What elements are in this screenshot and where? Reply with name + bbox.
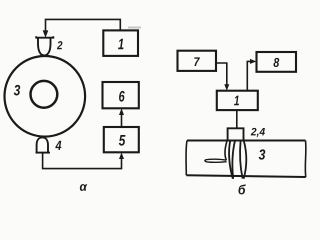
workpiece bottom surface — [186, 175, 305, 177]
arrow into block 1 — [224, 84, 229, 90]
workpiece top surface — [187, 140, 306, 142]
workpiece left edge — [185, 141, 188, 176]
rotor disc 3 (outer circle) — [5, 56, 86, 137]
arrow into block 8 — [250, 59, 256, 64]
label 3 (workpiece) — [259, 149, 266, 159]
rotor bore (inner circle) — [31, 81, 58, 108]
wire block1 to block8 — [247, 61, 253, 90]
wire block1 to probe 2,4 — [236, 110, 238, 128]
block 8 — [257, 52, 297, 72]
label 1 (block 1 right) — [234, 96, 239, 106]
transducer 4 (bottom probe) — [36, 137, 51, 152]
wire block5 to block6 — [121, 112, 123, 128]
block 5 — [104, 127, 139, 152]
transducer 2,4 (combined probe) — [228, 128, 244, 140]
wire transducer4 to block5 — [43, 153, 122, 169]
label 8 (block 8) — [273, 58, 279, 67]
label 3 (disc) — [14, 85, 20, 96]
arrow into block 6 — [119, 108, 124, 115]
label a (caption left) — [80, 184, 87, 191]
block 6 — [103, 82, 139, 108]
label b (caption right) — [238, 184, 245, 194]
label 7 (block 7) — [194, 57, 200, 66]
label 2,4 (probe) — [251, 128, 265, 137]
weld seam right boundary pair — [240, 141, 242, 179]
label 2 (top probe) — [57, 41, 62, 49]
arrow into block 5 — [119, 152, 124, 159]
workpiece right edge — [304, 141, 307, 178]
block 7 — [178, 51, 217, 71]
label 4 (bottom probe) — [55, 141, 61, 150]
weld seam left boundary pair — [229, 141, 233, 179]
wire block1 to transducer2 — [46, 19, 121, 32]
transducer 2 (top probe) — [36, 36, 53, 55]
label 1 (block 1 left) — [118, 39, 123, 49]
arrow into transducer 2 — [43, 30, 49, 37]
label 5 (block 5) — [119, 135, 126, 146]
label 6 (block 6) — [119, 91, 125, 102]
defect (lack of fusion hook) — [225, 141, 227, 160]
wire block7 to block1 — [216, 63, 227, 88]
block 1 (right diagram) — [217, 91, 258, 110]
block 1 (left diagram) — [103, 30, 138, 56]
